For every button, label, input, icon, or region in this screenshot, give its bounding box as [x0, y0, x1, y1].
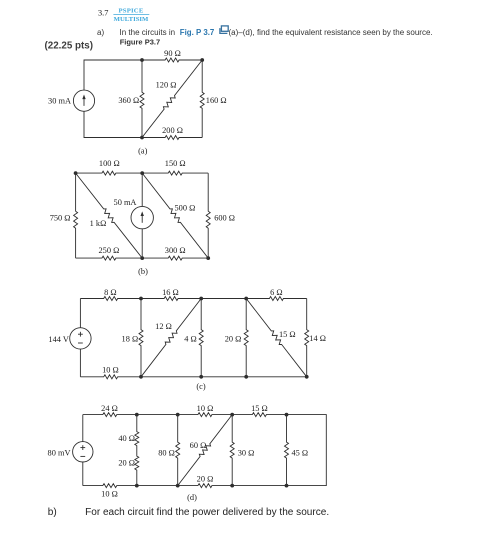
svg-text:Figure P3.7: Figure P3.7: [120, 37, 160, 46]
label 20 Ω (d bottom): [197, 475, 214, 484]
resistor 15 ohm (c) diagonal: [246, 299, 307, 377]
wire (d) top between 24 and 10 ohm: [137, 414, 178, 416]
svg-text:(a): (a): [138, 147, 147, 156]
resistor 16 ohm (c) top: [141, 297, 201, 301]
svg-text:(c): (c): [196, 382, 205, 391]
resistor 500 ohm (b) diagonal: [142, 173, 208, 258]
resistor 160 ohm (a) right branch: [200, 60, 204, 138]
svg-text:3.7: 3.7: [98, 9, 108, 18]
svg-text:10 Ω: 10 Ω: [102, 365, 119, 374]
svg-text:15 Ω: 15 Ω: [279, 330, 296, 339]
label 20 Ω: [225, 334, 242, 343]
resistor 360 ohm (a) middle branch: [140, 60, 144, 138]
current source 50 mA: [131, 206, 153, 228]
node (c) top 4ohm: [199, 297, 203, 301]
label 16 Ω: [162, 288, 179, 297]
label 24 Ω: [101, 404, 118, 413]
node (a) top-right: [200, 58, 204, 62]
problem number 3.7: [98, 9, 108, 18]
svg-text:a): a): [97, 28, 104, 37]
resistor 8 ohm (c) top: [80, 297, 141, 301]
svg-text:For each circuit find the powe: For each circuit find the power delivere…: [85, 507, 329, 518]
label 100 Ω: [99, 159, 120, 168]
wire (c) source top lead: [79, 299, 81, 328]
label 360 Ω: [118, 96, 139, 105]
resistor 1 kohm (b) diagonal: [76, 173, 143, 258]
wire (b) source to bottom node: [141, 229, 143, 258]
svg-text:80 Ω: 80 Ω: [158, 449, 175, 458]
resistor 600 ohm (b) right branch: [206, 173, 210, 258]
resistor 24 ohm (d) top: [83, 413, 137, 417]
Figure P3.7 caption: [120, 37, 160, 46]
wire (a) source bottom lead to bottom-middle node: [84, 111, 142, 137]
resistor 10 ohm (d) bottom: [83, 484, 137, 488]
resistor 100 ohm (b) top-left: [76, 171, 143, 175]
resistor 150 ohm (b) top-right: [142, 171, 208, 175]
wire (d) top right corner: [287, 415, 327, 486]
figure link icon: [220, 26, 228, 34]
resistor 15 ohm (d) top: [232, 413, 286, 417]
node (c) bottom 4ohm: [199, 375, 203, 379]
node (d) top n1: [135, 413, 139, 417]
resistor 45 ohm (d) branch: [285, 415, 289, 486]
resistor 20 ohm (c) branch: [244, 299, 248, 377]
node (d) bottom n1: [135, 484, 139, 488]
label 14 Ω: [309, 334, 326, 343]
svg-text:16 Ω: 16 Ω: [162, 288, 179, 297]
node (d) bottom n4: [285, 484, 289, 488]
resistor 12 ohm (c) diagonal: [141, 299, 201, 377]
wire (c) top between 16 and 6 ohm: [201, 298, 246, 300]
svg-text:60 Ω: 60 Ω: [190, 441, 207, 450]
svg-text:24 Ω: 24 Ω: [101, 404, 118, 413]
svg-text:160 Ω: 160 Ω: [206, 96, 227, 105]
part a) text with Fig. P 3.7 link: [120, 28, 433, 37]
label 80 Ω: [158, 449, 175, 458]
wire (d) source top lead: [82, 415, 84, 442]
svg-text:18 Ω: 18 Ω: [122, 334, 139, 343]
resistor 10 ohm (c) bottom: [80, 375, 141, 379]
resistor 6 ohm (c) top: [246, 297, 307, 301]
svg-text:(22.25 pts): (22.25 pts): [45, 40, 93, 51]
label 600 Ω: [214, 213, 235, 222]
svg-text:1 kΩ: 1 kΩ: [90, 219, 107, 228]
node (c) bottom 18ohm: [139, 375, 143, 379]
resistor 200 ohm (a) bottom: [142, 136, 202, 140]
label 30 Ω: [238, 448, 255, 457]
svg-text:300 Ω: 300 Ω: [165, 246, 186, 255]
wire (a) source top lead to top-middle node: [84, 60, 142, 90]
resistor 60 ohm (d) diagonal: [178, 415, 233, 486]
svg-text:20 Ω: 20 Ω: [118, 459, 135, 468]
resistor 10 ohm (d) top: [178, 413, 233, 417]
node (d) top n4: [285, 413, 289, 417]
svg-text:80 mV: 80 mV: [48, 449, 71, 458]
label 50 mA: [114, 198, 137, 207]
svg-text:10 Ω: 10 Ω: [101, 490, 118, 499]
svg-text:8 Ω: 8 Ω: [104, 288, 116, 297]
wire (d) source bottom lead: [82, 462, 84, 486]
resistor 40 ohm and 20 ohm (d) series branch: [135, 415, 139, 486]
label 6 Ω: [270, 288, 282, 297]
label 120 Ω: [156, 81, 177, 90]
current source 30 mA: [73, 90, 94, 111]
MULTISIM tag: [114, 16, 149, 23]
label (b) caption: [138, 267, 148, 276]
svg-text:(a)–(d), find the equivalent r: (a)–(d), find the equivalent resistance …: [229, 28, 433, 37]
svg-text:10 Ω: 10 Ω: [197, 404, 214, 413]
resistor 18 ohm (c) branch: [139, 299, 143, 377]
resistor 4 ohm (c) branch: [199, 299, 203, 377]
svg-text:100 Ω: 100 Ω: [99, 159, 120, 168]
wire (d) bottom right rail: [232, 485, 286, 487]
svg-text:144 V: 144 V: [48, 335, 68, 344]
svg-text:500 Ω: 500 Ω: [175, 203, 196, 212]
svg-text:30 mA: 30 mA: [48, 97, 71, 106]
node (c) top 20ohm: [244, 297, 248, 301]
wire (c) bottom rail: [141, 376, 307, 378]
svg-text:90 Ω: 90 Ω: [164, 49, 181, 58]
fraction rule: [113, 13, 149, 15]
svg-text:20 Ω: 20 Ω: [197, 475, 214, 484]
svg-text:MULTISIM: MULTISIM: [114, 16, 149, 23]
svg-text:In the circuits in: In the circuits in: [120, 28, 176, 37]
label 20 Ω (d branch): [118, 459, 135, 468]
svg-text:200 Ω: 200 Ω: [162, 126, 183, 135]
node (c) bottom right: [305, 375, 309, 379]
node (d) bottom n2: [176, 484, 180, 488]
resistor 250 ohm (b) bottom-left: [76, 256, 143, 260]
svg-text:50 mA: 50 mA: [114, 198, 137, 207]
label 10 Ω (c): [102, 365, 119, 374]
label 200 Ω: [162, 126, 183, 135]
svg-text:30 Ω: 30 Ω: [238, 448, 255, 457]
label 45 Ω: [292, 448, 309, 457]
resistor 20 ohm (d) bottom: [178, 484, 233, 488]
label 30 mA: [48, 97, 71, 106]
label 12 Ω: [155, 322, 172, 331]
part a) heading: [97, 28, 104, 37]
svg-text:600 Ω: 600 Ω: [214, 213, 235, 222]
part b) heading: [48, 507, 57, 518]
label 10 Ω (d top): [197, 404, 214, 413]
wire (b) top node to source: [141, 173, 143, 206]
label (c) caption: [196, 382, 205, 391]
part b) text: [85, 507, 329, 518]
label (d) caption: [187, 493, 197, 502]
label 80 mV: [48, 449, 71, 458]
label 15 Ω (d): [251, 404, 268, 413]
label 10 Ω (d bottom): [101, 490, 118, 499]
label (a) caption: [138, 147, 147, 156]
node (c) bottom 20ohm: [244, 375, 248, 379]
svg-text:40 Ω: 40 Ω: [118, 434, 135, 443]
resistor 750 ohm (b) left branch: [74, 173, 78, 258]
node (d) top n2: [176, 413, 180, 417]
svg-text:12 Ω: 12 Ω: [155, 322, 172, 331]
wire (d) bottom between 10 and 20 ohm: [137, 485, 178, 487]
svg-text:6 Ω: 6 Ω: [270, 288, 282, 297]
node (d) top n3: [230, 413, 234, 417]
wire (c) source bottom lead: [79, 349, 81, 377]
label 15 Ω: [279, 330, 296, 339]
label 160 Ω: [206, 96, 227, 105]
node (a) bottom-middle: [140, 136, 144, 140]
resistor 300 ohm (b) bottom-right: [142, 256, 208, 260]
label 1 kΩ: [90, 219, 107, 228]
label 500 Ω: [175, 203, 196, 212]
label 18 Ω: [122, 334, 139, 343]
label 60 Ω: [190, 441, 207, 450]
resistor 120 ohm (a) diagonal: [142, 60, 202, 138]
label 8 Ω: [104, 288, 116, 297]
resistor 80 ohm (d) branch: [176, 415, 180, 486]
svg-text:120 Ω: 120 Ω: [156, 81, 177, 90]
svg-text:b): b): [48, 507, 57, 518]
svg-text:150 Ω: 150 Ω: [165, 159, 186, 168]
svg-text:750 Ω: 750 Ω: [50, 213, 71, 222]
svg-text:14 Ω: 14 Ω: [309, 334, 326, 343]
resistor 90 ohm (a) top: [142, 58, 202, 62]
points annotation: [45, 40, 93, 51]
node (b) top-left: [74, 171, 78, 175]
voltage source 80 mV: [73, 442, 93, 462]
node (c) top 18ohm: [139, 297, 143, 301]
svg-text:(d): (d): [187, 493, 197, 502]
svg-text:360 Ω: 360 Ω: [118, 96, 139, 105]
svg-text:45 Ω: 45 Ω: [292, 448, 309, 457]
voltage source 144 V: [70, 328, 91, 349]
svg-text:15 Ω: 15 Ω: [251, 404, 268, 413]
label 90 Ω: [164, 49, 181, 58]
resistor 14 ohm (c) right branch: [305, 299, 309, 377]
node (b) bottom-right: [206, 256, 210, 260]
node (b) bottom-middle: [140, 256, 144, 260]
label 144 V: [48, 335, 68, 344]
label 40 Ω: [118, 434, 135, 443]
svg-text:Fig. P 3.7: Fig. P 3.7: [180, 28, 215, 37]
resistor 30 ohm (d) branch: [230, 415, 234, 486]
node (d) bottom n3: [230, 484, 234, 488]
node (a) top-middle: [140, 58, 144, 62]
svg-text:250 Ω: 250 Ω: [98, 246, 119, 255]
svg-text:4 Ω: 4 Ω: [184, 334, 196, 343]
svg-text:PSPICE: PSPICE: [119, 7, 144, 14]
label 150 Ω: [165, 159, 186, 168]
svg-text:20 Ω: 20 Ω: [225, 334, 242, 343]
label 750 Ω: [50, 213, 71, 222]
label 250 Ω: [98, 246, 119, 255]
PSPICE tag: [119, 7, 144, 14]
node (b) top-middle: [140, 171, 144, 175]
label 4 Ω: [184, 334, 196, 343]
label 300 Ω: [165, 246, 186, 255]
svg-text:(b): (b): [138, 267, 148, 276]
